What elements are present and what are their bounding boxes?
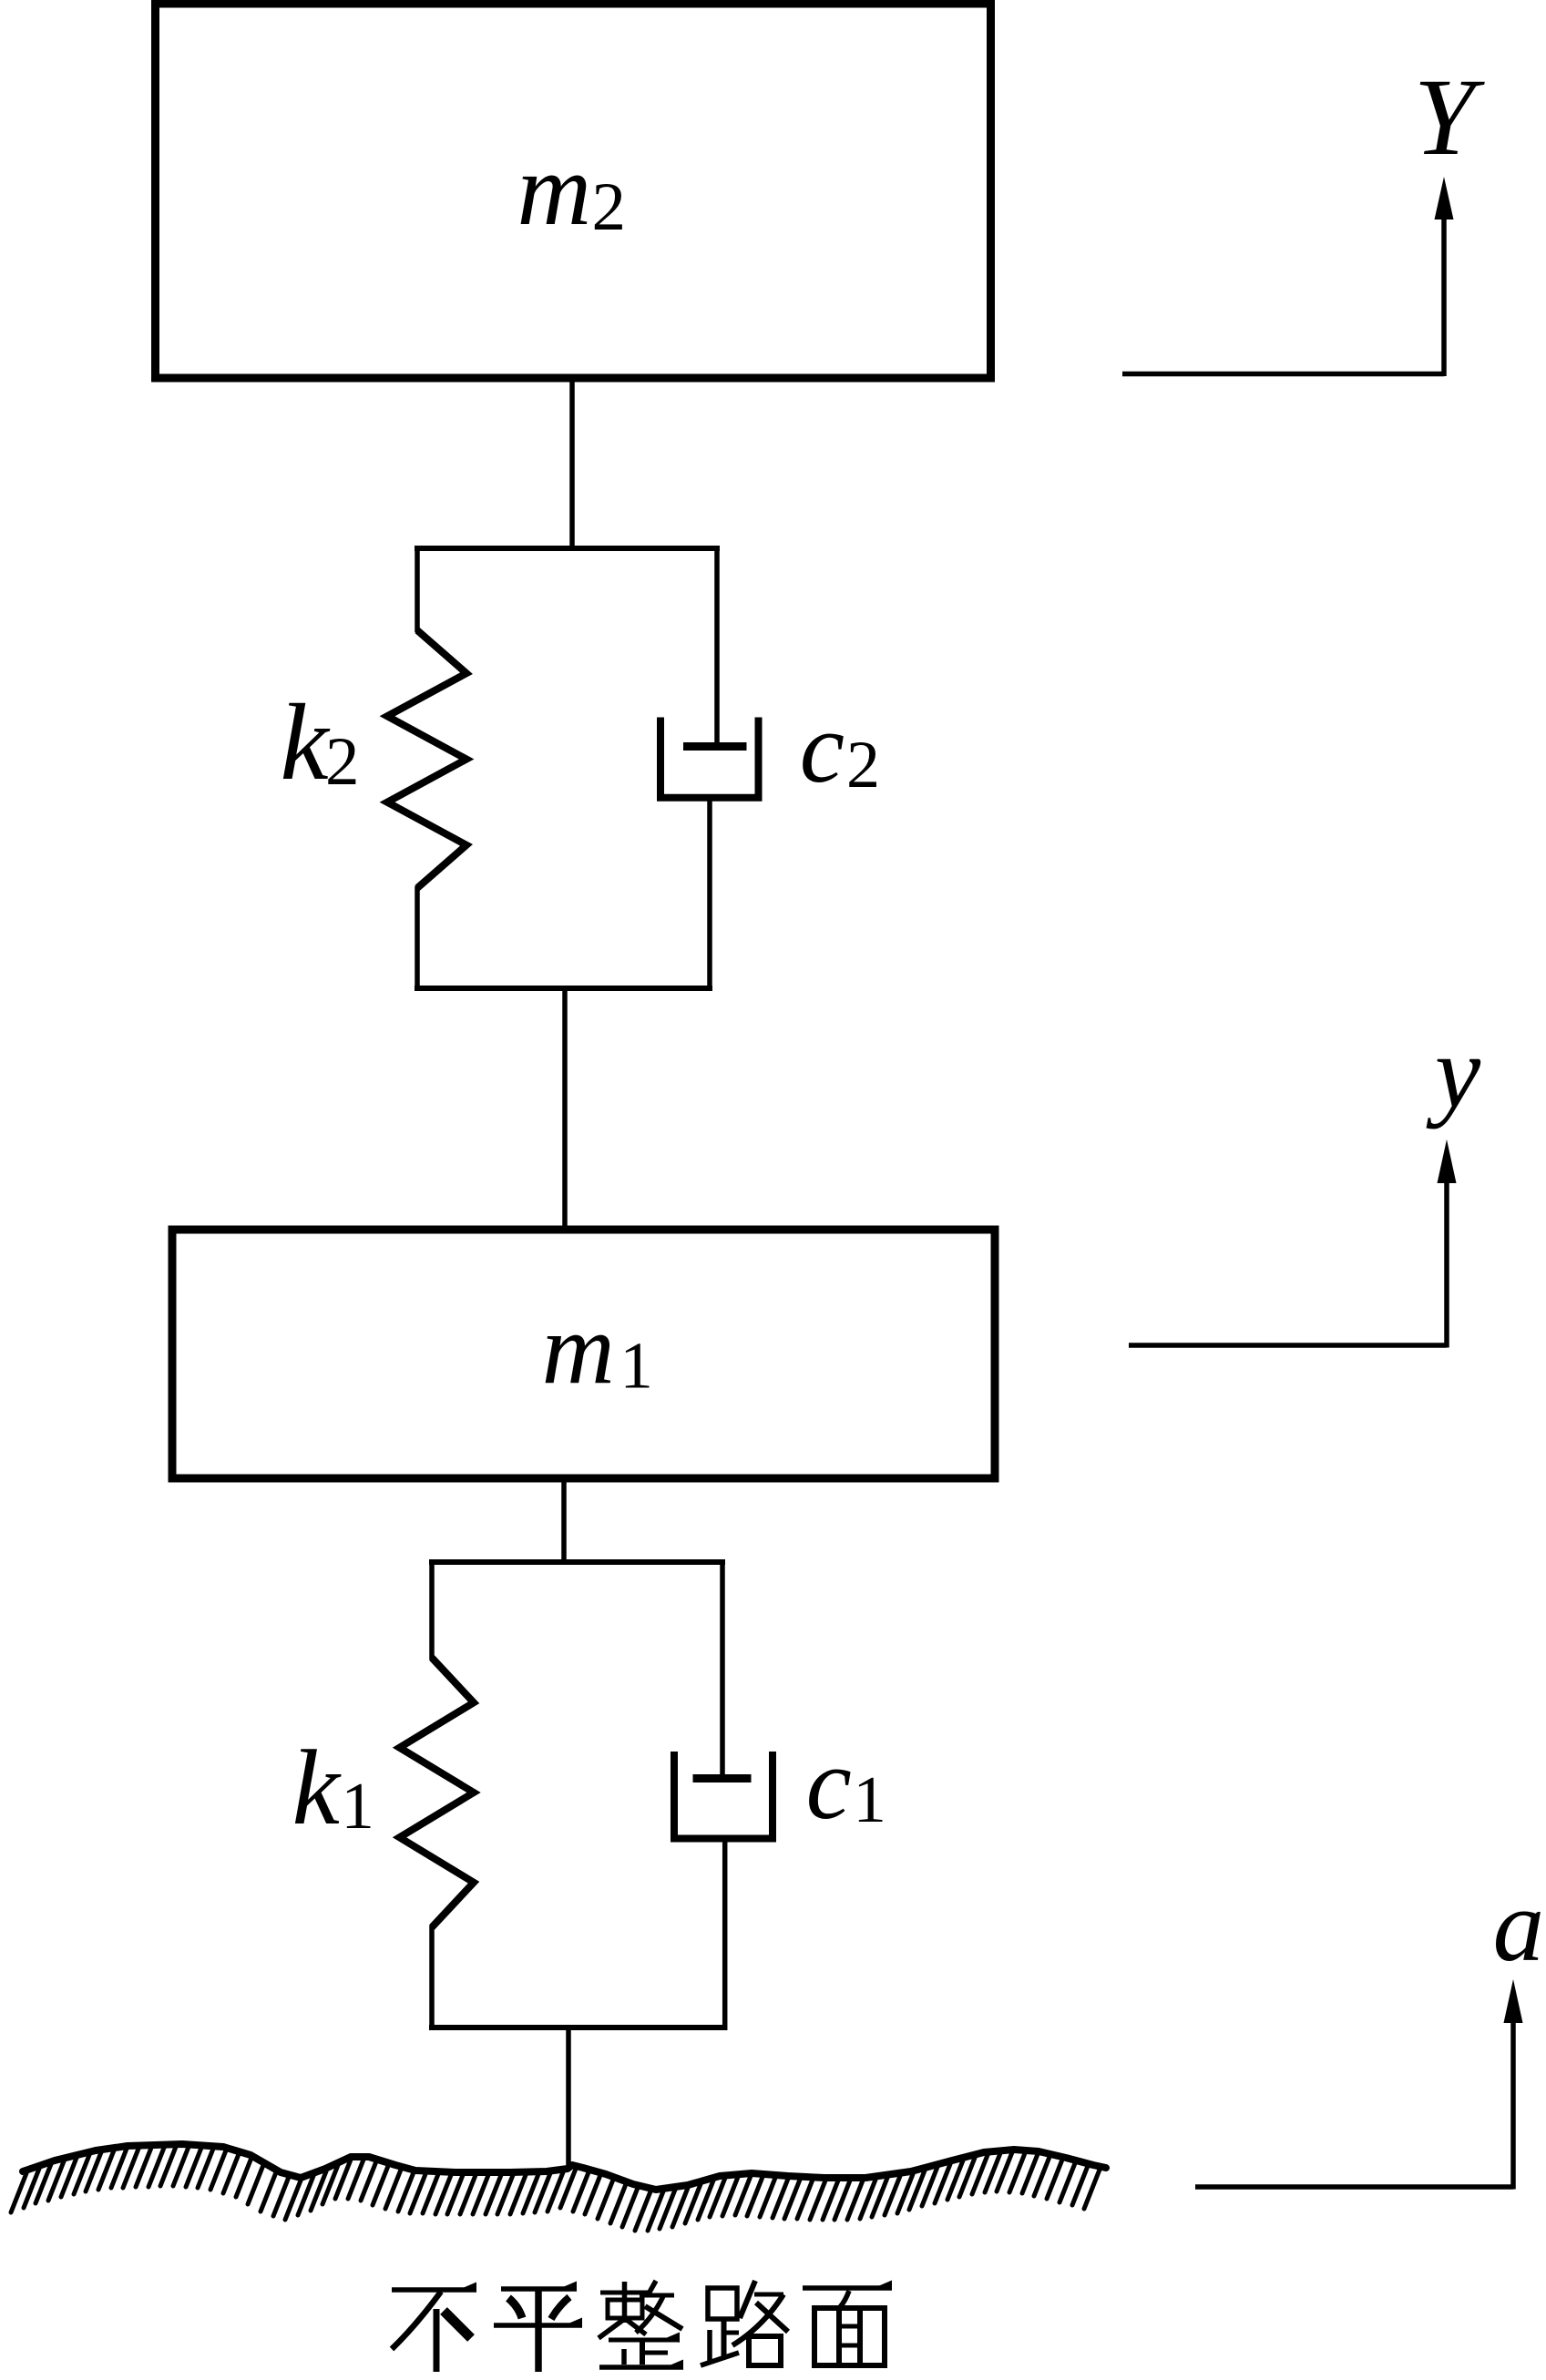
node: tire bottom bar (429, 2025, 727, 2030)
svg-text:2: 2 (846, 728, 880, 802)
node: suspension top bar (415, 546, 720, 551)
svg-text:k: k (292, 1728, 343, 1847)
label y (1426, 1016, 1481, 1129)
svg-text:y: y (1426, 1016, 1481, 1129)
axis Y arrowhead (1435, 177, 1454, 220)
svg-text:1: 1 (619, 1329, 653, 1403)
spring k1 (400, 1658, 475, 1927)
svg-text:1: 1 (341, 1769, 374, 1843)
axis a datum line (1195, 2184, 1513, 2190)
road hatching (11, 2147, 1100, 2231)
damper c2 cylinder cup (660, 718, 759, 798)
svg-text:k: k (280, 681, 331, 802)
damper c2 piston plate (683, 742, 747, 751)
svg-text:1: 1 (853, 1762, 886, 1836)
wire m2 bottom to suspension top bar (569, 377, 575, 551)
axis Y arrow shaft (1441, 215, 1447, 376)
mass m2 (156, 4, 991, 378)
label m1 (542, 1293, 653, 1405)
svg-text:m: m (542, 1293, 615, 1405)
label c1 (806, 1727, 886, 1841)
spring k2 (387, 630, 466, 888)
road label char mian (803, 2281, 892, 2366)
label k2 (280, 681, 359, 802)
road surface profile (23, 2144, 1106, 2190)
label c2 (800, 692, 880, 804)
damper c1 piston plate (693, 1774, 752, 1782)
axis y datum line (1129, 1343, 1447, 1348)
mass m1 (172, 1230, 995, 1478)
node: suspension bottom bar (415, 986, 712, 991)
damper c1 cylinder cup (674, 1752, 773, 1839)
svg-text:c: c (800, 692, 845, 804)
road label char zheng (599, 2281, 683, 2370)
wire damper c1 piston rod (720, 1559, 725, 1782)
label k1 (292, 1728, 374, 1847)
road label char ping (494, 2282, 582, 2373)
svg-text:m: m (517, 133, 592, 247)
wire tire bottom bar to road (566, 2028, 571, 2168)
axis Y datum line (1122, 372, 1444, 377)
axis y arrowhead (1438, 1139, 1457, 1183)
svg-text:c: c (806, 1727, 852, 1841)
wire spring k2 bottom lead (415, 886, 420, 991)
svg-text:Y: Y (1414, 56, 1486, 179)
wire spring k1 bottom lead (429, 1925, 435, 2030)
node: tire top bar (429, 1559, 725, 1565)
wire damper c2 piston rod (714, 546, 720, 751)
wire suspension bottom bar to m1 (562, 988, 568, 1231)
road label char bu (392, 2283, 476, 2373)
axis y arrow shaft (1444, 1178, 1449, 1348)
svg-text:a: a (1493, 1869, 1545, 1983)
label m2 (517, 133, 627, 247)
svg-text:2: 2 (592, 169, 627, 245)
wire damper c1 lower rod (722, 1839, 728, 2030)
wire spring k1 top lead (429, 1559, 435, 1660)
wire m1 bottom to tire top bar (561, 1478, 567, 1565)
label a (1493, 1869, 1545, 1983)
road label char lu (701, 2281, 788, 2365)
label Y (1414, 56, 1486, 179)
axis a arrow shaft (1510, 2017, 1516, 2190)
svg-text:2: 2 (325, 724, 360, 800)
axis a arrowhead (1504, 1979, 1523, 2023)
wire spring k2 top lead (415, 546, 420, 632)
wire damper c2 lower rod (707, 798, 712, 991)
